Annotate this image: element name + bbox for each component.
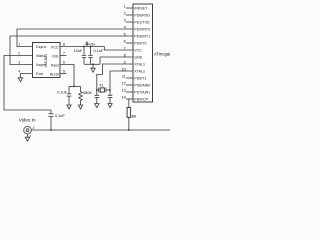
svg-text:12: 12: [122, 81, 126, 85]
wire video line: [31, 129, 170, 131]
svg-text:11: 11: [122, 74, 126, 78]
wire GND riser to pin8: [100, 57, 133, 64]
node dot crystal right: [109, 89, 111, 91]
wire O/E stub pin7: [60, 55, 67, 57]
wire Burst stub pin5: [60, 73, 67, 75]
svg-text:0.1uF: 0.1uF: [55, 114, 65, 118]
capacitor C2 0.1uF: [88, 47, 93, 65]
svg-text:PD0/RXD: PD0/RXD: [134, 13, 150, 17]
svg-text:O/E: O/E: [52, 54, 59, 58]
crystal X1: [97, 88, 110, 93]
node dot crystal left: [96, 89, 98, 91]
svg-text:VCC: VCC: [51, 45, 59, 49]
svg-text:ATmega8: ATmega8: [154, 52, 170, 57]
svg-text:4: 4: [18, 69, 20, 73]
ground below C4: [95, 104, 99, 108]
svg-text:13: 13: [122, 88, 126, 92]
svg-text:10: 10: [131, 113, 136, 118]
wire pin6 stub: [126, 42, 133, 44]
svg-text:1: 1: [18, 42, 20, 46]
svg-text:Vsync: Vsync: [36, 63, 46, 67]
svg-text:8: 8: [63, 42, 65, 46]
svg-text:0.1uF: 0.1uF: [57, 90, 67, 94]
svg-text:VCC: VCC: [134, 48, 142, 52]
wire Video input to pin2: [4, 56, 51, 111]
svg-text:+5v: +5v: [89, 42, 95, 47]
node dot C2 rail: [90, 46, 92, 48]
capacitor C4: [95, 90, 100, 104]
wire GND tie bar: [84, 63, 100, 65]
svg-text:2: 2: [33, 126, 35, 130]
node dot tie bar: [92, 63, 94, 65]
wire pin11 stub: [126, 77, 133, 79]
node dot video line R2: [128, 129, 130, 131]
svg-text:PD5/T1: PD5/T1: [134, 76, 146, 80]
power +5v symbol: [86, 44, 88, 46]
wire Gnd pin4 LM1881: [21, 74, 33, 78]
svg-text:Rset: Rset: [51, 63, 60, 67]
wire Csync to PD2/INT0: [17, 29, 133, 47]
capacitor C1 10uF: [82, 47, 87, 65]
svg-text:PB0/ICP: PB0/ICP: [134, 97, 148, 101]
svg-text:/RESET: /RESET: [134, 6, 148, 10]
svg-text:GND: GND: [134, 55, 142, 59]
resistor R2 10: [128, 99, 130, 108]
node dot rset bar: [73, 86, 75, 88]
capacitor C6 0.1uF video coupling: [48, 110, 53, 130]
svg-text:1: 1: [124, 4, 126, 8]
svg-text:Video In: Video In: [19, 118, 36, 123]
svg-text:2: 2: [124, 11, 126, 15]
wire XTAL2 pin10: [110, 71, 133, 90]
svg-text:PD2/INT0: PD2/INT0: [134, 27, 150, 31]
wire pin1 stub: [126, 7, 133, 9]
capacitor C3 0.1uF: [67, 86, 72, 105]
node dot C1 rail: [83, 46, 85, 48]
svg-text:10uF: 10uF: [74, 49, 83, 53]
svg-text:PD4/T0: PD4/T0: [134, 41, 146, 45]
svg-text:Video: Video: [36, 54, 46, 58]
svg-text:6: 6: [124, 39, 126, 43]
resistor R1 680K: [79, 86, 83, 105]
wire pin2 stub: [126, 14, 133, 16]
wire pin3 stub: [126, 21, 133, 23]
ground below connector: [25, 134, 29, 142]
wire Vsync to PD3/INT1: [10, 36, 133, 65]
ground below C5: [108, 104, 112, 108]
wire Rset pin6 feed: [60, 65, 74, 87]
ground below tie bar: [91, 64, 95, 72]
wire pin13 stub: [126, 91, 133, 93]
ground below pin4: [18, 78, 22, 82]
ground below R1: [78, 105, 82, 109]
svg-text:Gnd: Gnd: [36, 72, 43, 76]
svg-text:3: 3: [18, 60, 20, 64]
svg-text:XTAL2: XTAL2: [134, 69, 145, 73]
svg-text:PD7/AIN1: PD7/AIN1: [134, 90, 150, 94]
wire XTAL1 pin9: [97, 64, 133, 90]
svg-text:XTAL1: XTAL1: [134, 62, 145, 66]
svg-text:0.1uF: 0.1uF: [94, 49, 104, 53]
svg-text:14: 14: [122, 95, 126, 99]
svg-text:PD3/INT1: PD3/INT1: [134, 34, 150, 38]
svg-text:PD6/AIN0: PD6/AIN0: [134, 83, 150, 87]
svg-text:X1: X1: [99, 83, 103, 87]
svg-text:6: 6: [63, 60, 65, 64]
svg-text:Csync: Csync: [36, 45, 47, 49]
wire +5v rail to VCC pins: [60, 47, 133, 51]
svg-text:7: 7: [63, 51, 65, 55]
svg-text:3: 3: [124, 18, 126, 22]
node dot coupling cap: [50, 129, 52, 131]
capacitor C5: [108, 90, 113, 104]
wire pin14 stub: [126, 98, 133, 100]
svg-text:680K: 680K: [83, 91, 92, 95]
op-amp U2 LM1881 body: [33, 43, 61, 78]
wire pin12 stub: [126, 84, 133, 86]
wire rset tie bar: [69, 85, 81, 87]
svg-text:2: 2: [18, 51, 20, 55]
ground below C3: [67, 105, 71, 109]
svg-text:5: 5: [63, 69, 65, 73]
svg-text:PD1/TXD: PD1/TXD: [134, 20, 150, 24]
svg-text:Burst: Burst: [50, 72, 60, 76]
op-amp U1 ATmega8 body: [133, 4, 153, 102]
